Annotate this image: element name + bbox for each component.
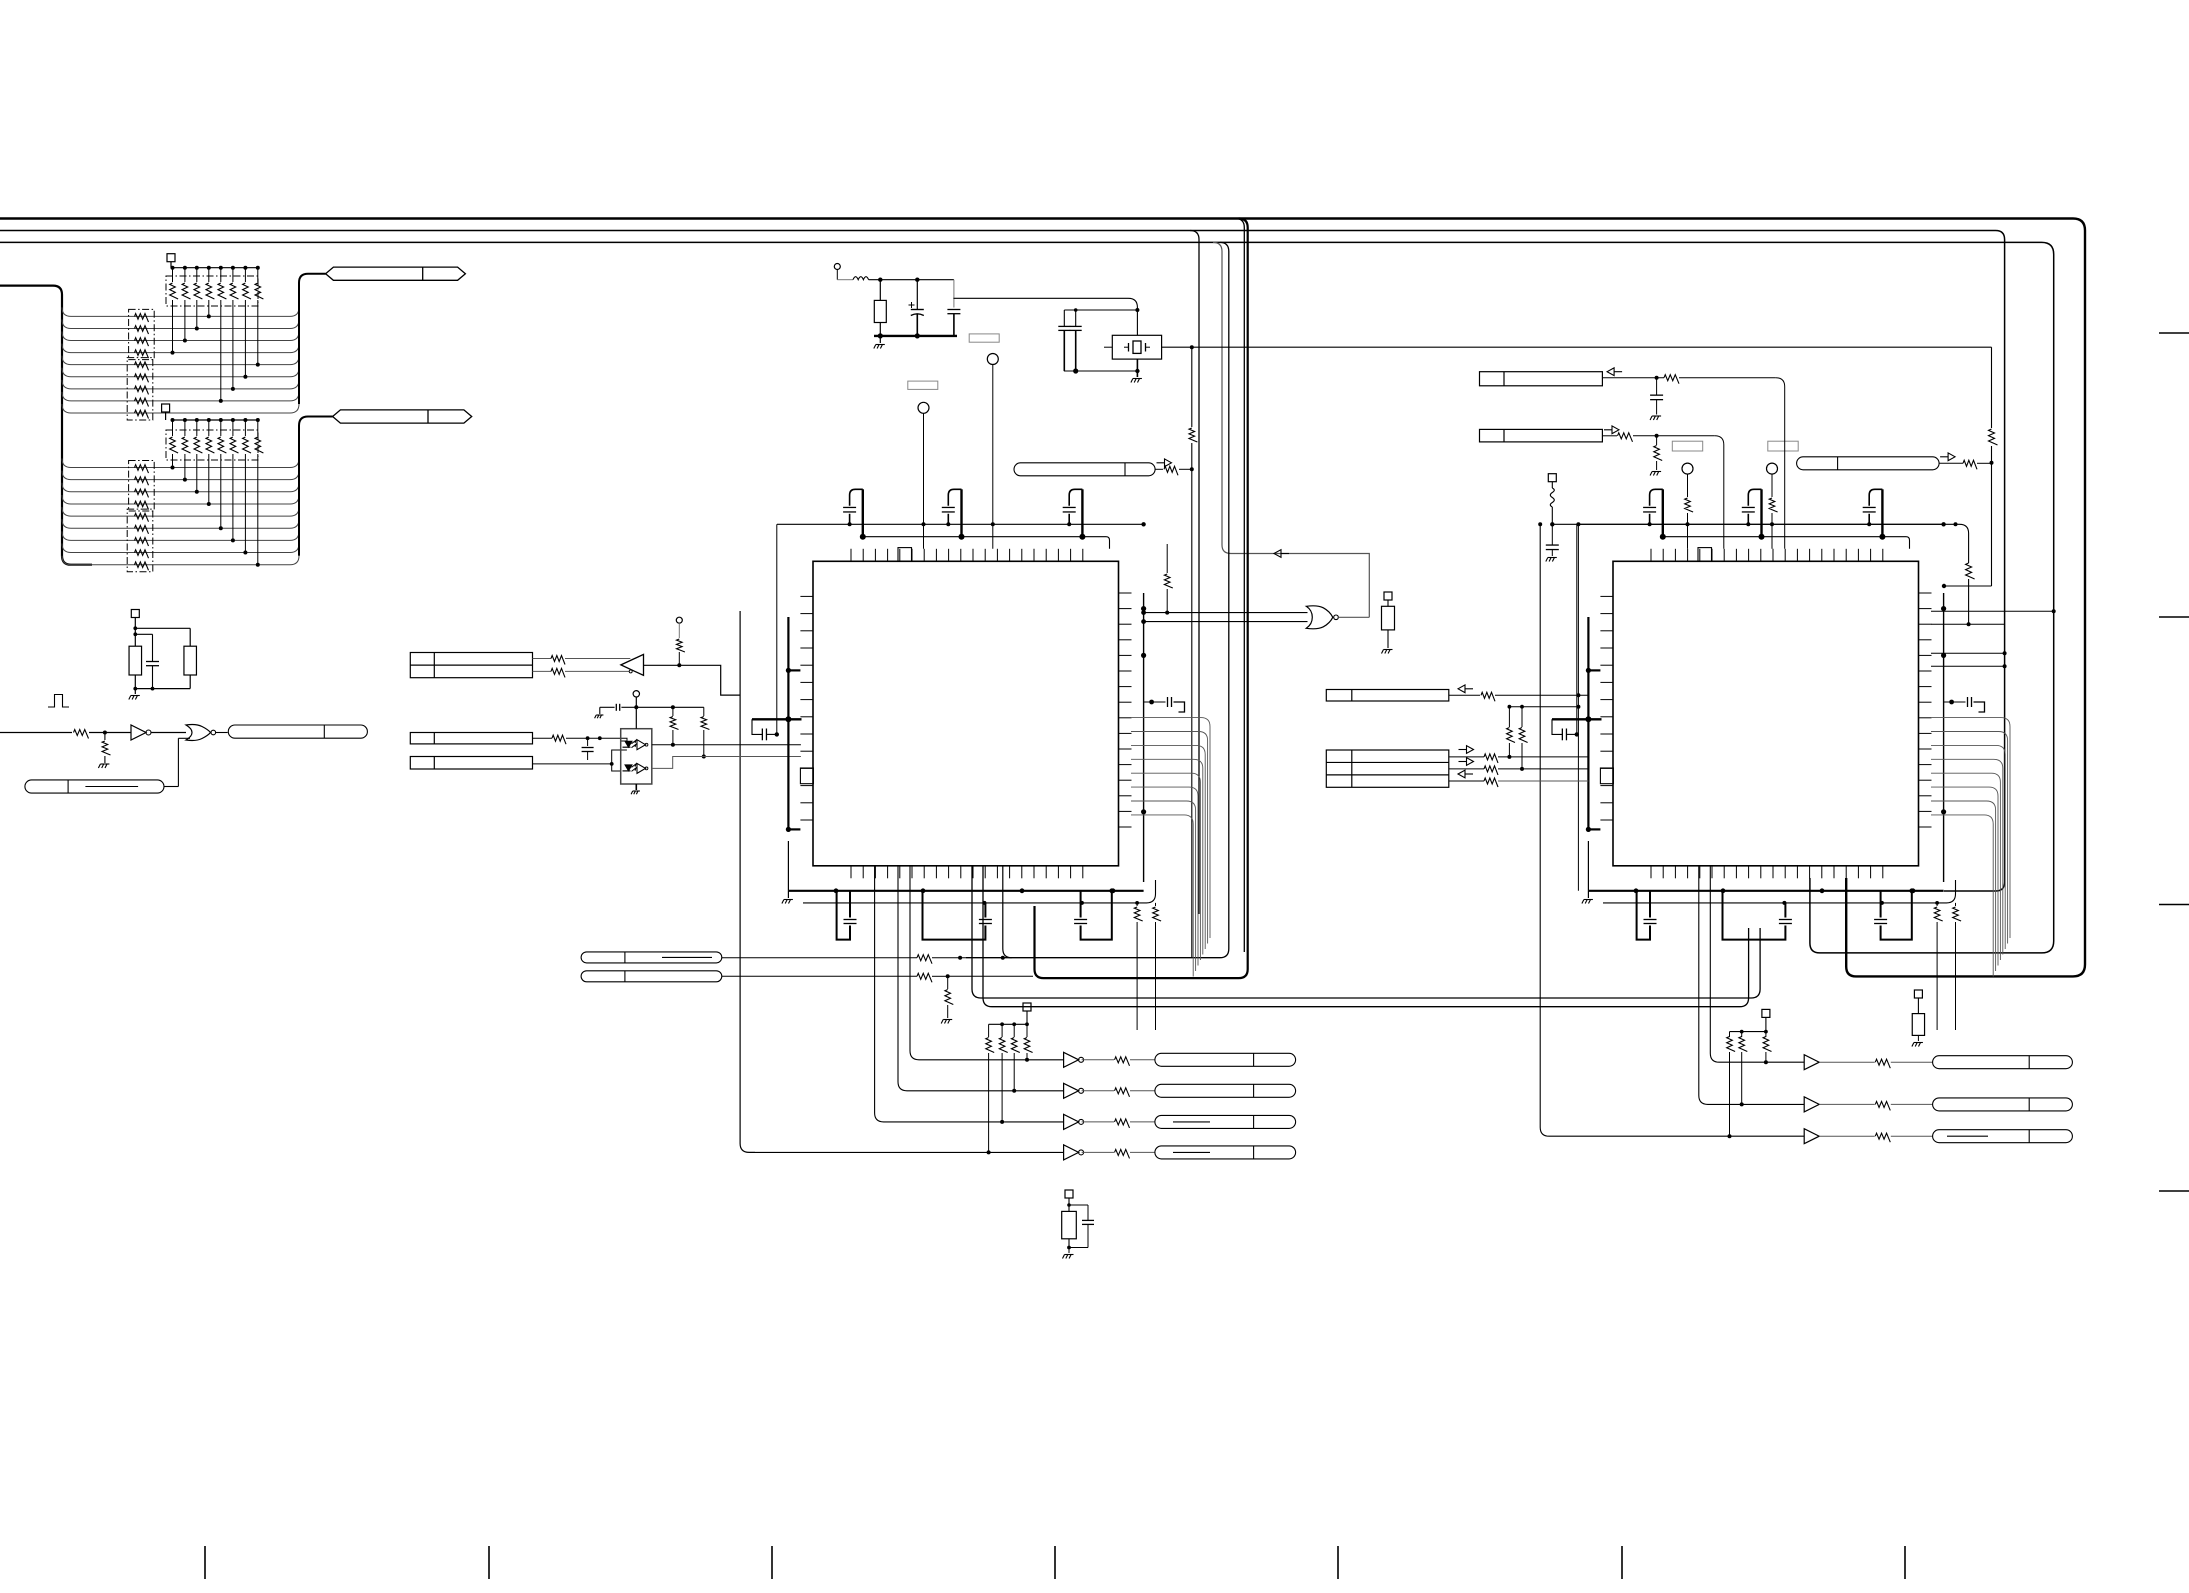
wire OR output loop	[1338, 616, 1369, 618]
pull-up resistors J7	[1507, 705, 1579, 769]
IC U10 left notch	[800, 768, 813, 784]
output net flags left	[1155, 1053, 1296, 1159]
bus group 2 collector stem	[299, 417, 333, 556]
capacitor C+ power filter	[909, 280, 924, 336]
pulse waveform symbol	[48, 695, 69, 708]
pull-up pad outputs left	[989, 1003, 1031, 1026]
resistor R left box	[129, 646, 142, 675]
wire bus line B top	[0, 231, 2005, 892]
frame tick marks right	[2159, 333, 2189, 1191]
value label box IC2 b	[1768, 441, 1798, 451]
pull-up resistor opto 2	[701, 717, 709, 759]
IC U11 bottom bypass cap 3	[1874, 888, 1914, 939]
resistor pulldown mid	[1382, 592, 1395, 654]
wire long link L2	[983, 866, 1749, 1007]
RC network bottom	[1062, 1190, 1094, 1259]
IC U11 left notch	[1600, 768, 1613, 784]
IC U11 body	[1613, 561, 1919, 866]
net flag clock out	[228, 725, 367, 738]
RC bottom wire and ground	[129, 666, 190, 700]
IC U11 bottom bypass cap 2	[1723, 891, 1792, 940]
arrow into J4	[1607, 368, 1622, 376]
IC U10 right pins	[1119, 593, 1132, 827]
opto output wires to IC1	[652, 745, 801, 769]
connector J6 1-row	[1326, 690, 1449, 702]
IC U10 left pins	[800, 596, 813, 820]
IC U10 power rail 2	[863, 537, 1110, 549]
capacitor CX2	[1070, 326, 1082, 371]
arrow into J6	[1458, 685, 1473, 693]
IC U11 bottom pins	[1651, 866, 1883, 879]
wire flag2 to chain	[722, 973, 1033, 982]
wire J2 to opto	[533, 735, 628, 744]
IC U10 bottom bypass cap 3	[1074, 888, 1114, 939]
wire IC1 drop to flag line	[1001, 866, 1012, 960]
frame tick marks bottom	[205, 1546, 1905, 1579]
IC U11 top notch	[1698, 548, 1712, 562]
IC U10 bottom pins	[851, 866, 1083, 879]
IC U11 left pins	[1600, 596, 1613, 820]
connector J1 2-row	[410, 653, 532, 678]
wire bus drop M2 with feedback to gate	[1213, 242, 1369, 617]
IC U10 bottom bypass cap 2	[923, 891, 992, 940]
wire mid flag to junction	[1155, 466, 1192, 475]
bus group 2 pull-up VCC pad and rail	[162, 404, 260, 422]
terminal above IC1 b	[987, 354, 998, 549]
wire feeder elbow top-left	[0, 286, 92, 565]
IC U10 top notch	[898, 548, 912, 562]
IC U11 ground bus bottom	[1582, 841, 1944, 904]
wire long drop to output row4	[740, 611, 755, 1152]
bus group 1 series resistor network RN box	[127, 309, 154, 420]
capacitor on J2 line	[582, 738, 594, 760]
resistor on rail drop	[1966, 563, 1975, 626]
wire OR output to flag	[216, 732, 228, 734]
resistor in power filter	[874, 280, 886, 336]
vertical wire x1578	[1576, 522, 1580, 891]
capacitor C2 power filter	[947, 280, 960, 336]
net flag bottom left 1	[581, 952, 722, 963]
bus group 1 pull-up resistors	[170, 268, 264, 403]
capacitor CX1	[1058, 326, 1070, 371]
opto ground	[631, 784, 640, 794]
connector J7 3-row	[1326, 750, 1449, 787]
wire crystal output	[1162, 345, 1992, 349]
wire flag to junction	[1939, 460, 1993, 469]
bus group 1 bus lines	[62, 307, 299, 413]
power pad and RC filter	[131, 610, 190, 662]
connector J4 1-row	[1480, 372, 1603, 386]
crystal load caps wire	[1064, 308, 1139, 327]
IC U11 decoupling cap right	[1944, 697, 1985, 712]
IC U11 pulldown resistors bottom	[1934, 901, 1961, 1030]
wire clock input	[0, 730, 131, 739]
IC U11 right pins	[1919, 593, 1932, 827]
opto power terminal	[633, 691, 639, 729]
power input terminal	[834, 264, 954, 282]
IC U11 top pins	[1651, 549, 1883, 562]
capacitor on J4 wire	[1650, 378, 1663, 420]
net flag bottom left 2	[581, 971, 722, 982]
buffer on clock	[131, 725, 151, 740]
wires into OR gate	[1141, 610, 1307, 624]
wire bus drop M3 return into IC1	[966, 242, 1229, 957]
opto element 2	[623, 763, 648, 773]
bus group 1 series resistors	[135, 314, 149, 419]
net flag mid left	[1014, 463, 1155, 476]
IC U11 power rail 2	[1663, 537, 1910, 549]
arrow J7 row3	[1458, 770, 1473, 778]
wire flag to OR lower input	[164, 738, 190, 786]
arrow J7 row1	[1459, 746, 1474, 754]
value label box IC1 b	[969, 334, 999, 342]
IC U10 left pin bracket	[786, 617, 801, 832]
arrow on clock right	[1940, 453, 1955, 461]
IC U11 bypass cap top 1	[1643, 489, 1666, 539]
connector J3 1-row	[410, 757, 532, 770]
bus group 1 collector stem	[299, 274, 326, 404]
terminal above IC2 b	[1767, 463, 1778, 549]
net flag clock right	[1797, 457, 1940, 470]
pull-up resistor opto 1	[670, 717, 678, 747]
crystal X1 symbol	[1124, 341, 1150, 353]
IC U10 right fanout wires	[1131, 718, 1210, 977]
opto pull-up rail	[636, 705, 704, 716]
bus group 2 bus lines	[62, 459, 299, 565]
opto element 1	[623, 740, 648, 750]
bus group 1 pull-up network RN box	[166, 276, 258, 306]
resistor R right box	[184, 646, 197, 675]
bus group 2 pull-up network RN box	[166, 430, 258, 460]
IC U11 right fanout wires	[1931, 718, 2010, 977]
terminal above IC2 a	[1682, 463, 1693, 549]
IC U10 bypass cap top 2	[942, 489, 965, 539]
wire IC2 to bus y666	[1931, 664, 2007, 668]
wire J7 row2	[1449, 766, 1589, 775]
IC U11 bottom bypass cap 1	[1637, 891, 1657, 940]
crystal ground wire	[1064, 359, 1142, 382]
IC U11 bypass cap top 3	[1863, 489, 1886, 539]
net flag clock in lower	[25, 780, 164, 793]
bus arrow flag 2	[333, 410, 472, 423]
terminal above IC1 a	[918, 402, 929, 549]
wire IC2 to bus y611	[1931, 609, 2056, 613]
wire buffer out to IC1	[644, 665, 741, 695]
IC U10 pulldown resistors bottom	[1134, 901, 1161, 1030]
wires to output buffers right	[1540, 524, 1804, 1136]
IC U11 power rail top	[1577, 522, 1946, 526]
resistor pulldown right	[1912, 990, 1925, 1047]
IC U10 bypass cap top 1	[843, 489, 866, 539]
wire bus drop M1	[1190, 231, 1199, 915]
wire J3 to opto	[533, 750, 627, 771]
value label box IC1 a	[908, 381, 938, 389]
IC U10 bottom rail 2	[803, 880, 1156, 905]
output buffers left	[1064, 1052, 1155, 1160]
capacitor C mid	[146, 662, 159, 666]
value label box IC2 a	[1672, 441, 1702, 451]
IC U11 bottom rail 2	[1603, 880, 1956, 905]
wire J5 to IC2	[1602, 433, 1723, 549]
IC U10 decoupling cap right	[1144, 697, 1185, 712]
wire to IC2 right	[1942, 584, 1992, 588]
crystal X1 box	[1112, 335, 1161, 359]
connector J5 1-row	[1480, 429, 1603, 442]
resistor to ground on clock	[98, 733, 110, 769]
opto-isolator U3 body	[621, 729, 652, 784]
wire J7 row3	[1449, 778, 1589, 787]
bus arrow flag 1	[326, 267, 466, 280]
wires J1 to buffer	[533, 656, 633, 678]
bus group 1 pull-up VCC pad and rail	[167, 254, 260, 270]
IC U10 decoupling cap left	[752, 524, 802, 740]
crystal pin stub left	[1104, 346, 1112, 348]
wire bus line A top	[0, 219, 2085, 977]
pull-up resistors outputs right	[1727, 1032, 1772, 1139]
junction row3 feed	[1538, 522, 1542, 526]
bus group 2 pull-up resistors	[170, 420, 264, 567]
arrow on mid flag	[1157, 459, 1172, 467]
connector J2 1-row	[410, 733, 532, 744]
OR gate U	[186, 725, 216, 741]
IC U10 ground bus bottom	[782, 841, 1144, 904]
wire to crystal top	[953, 298, 1137, 335]
IC U10 top pins	[851, 549, 1083, 562]
wire bus line C top	[0, 242, 2054, 953]
IC U11 decoupling cap left	[1552, 524, 1602, 740]
bus group 2 series resistor network RN box	[127, 461, 154, 572]
IC U10 bypass cap top 3	[1063, 489, 1086, 539]
wire crystal branch down	[1189, 347, 1197, 958]
capacitor at opto power	[595, 704, 637, 718]
wire J4 to IC2	[1602, 375, 1784, 549]
resistor to ground under flag2 wire	[941, 976, 953, 1023]
IC U10 right pin bracket	[1141, 593, 1146, 882]
output buffers right	[1804, 1055, 1932, 1144]
OR gate U4	[1306, 606, 1338, 629]
IC U10 bottom bypass cap 1	[837, 891, 857, 940]
wire crystal vertical right	[1989, 347, 1998, 586]
power filter ground bus	[874, 333, 957, 348]
pull-up pad outputs right	[1730, 1009, 1770, 1033]
wire rail drop to bus	[1931, 623, 2005, 625]
wire VCC rail right	[1552, 522, 1968, 563]
IC U10 power rail top	[777, 522, 1146, 526]
wire buffer to OR gate	[152, 732, 187, 734]
IC U10 body	[813, 561, 1119, 866]
VCC pad with ferrite	[1548, 474, 1556, 527]
pull-up resistors outputs left	[986, 1024, 1033, 1154]
IC U11 right pin bracket	[1941, 593, 1946, 882]
capacitor under VCC pad	[1546, 524, 1559, 561]
resistor pulldown on J5	[1650, 436, 1662, 476]
wires to output buffers left	[755, 866, 1064, 1152]
wire flag1 to chain	[722, 955, 966, 964]
wire J6 to IC2	[1449, 692, 1589, 701]
IC U11 bypass cap top 2	[1742, 489, 1765, 539]
pull-up terminal above buffer	[676, 617, 685, 667]
arrow out of J5	[1604, 426, 1619, 434]
arrow J7 row2	[1459, 758, 1474, 766]
resistor right of IC1	[1164, 544, 1172, 615]
wire bus drop M5 return into IC1	[1035, 219, 1248, 979]
IC U11 left pin bracket	[1586, 617, 1601, 832]
wire bus drop M4	[1235, 219, 1244, 953]
wire long link L1	[972, 866, 1760, 998]
arrow marker on feedback line	[1274, 550, 1289, 558]
output net flags right	[1933, 1056, 2073, 1143]
buffer U2 receiver	[621, 654, 644, 675]
bus group 2 series resistors	[135, 465, 149, 571]
wire IC2 to bus y653	[1931, 651, 2007, 655]
wire J7 row1	[1449, 754, 1589, 763]
